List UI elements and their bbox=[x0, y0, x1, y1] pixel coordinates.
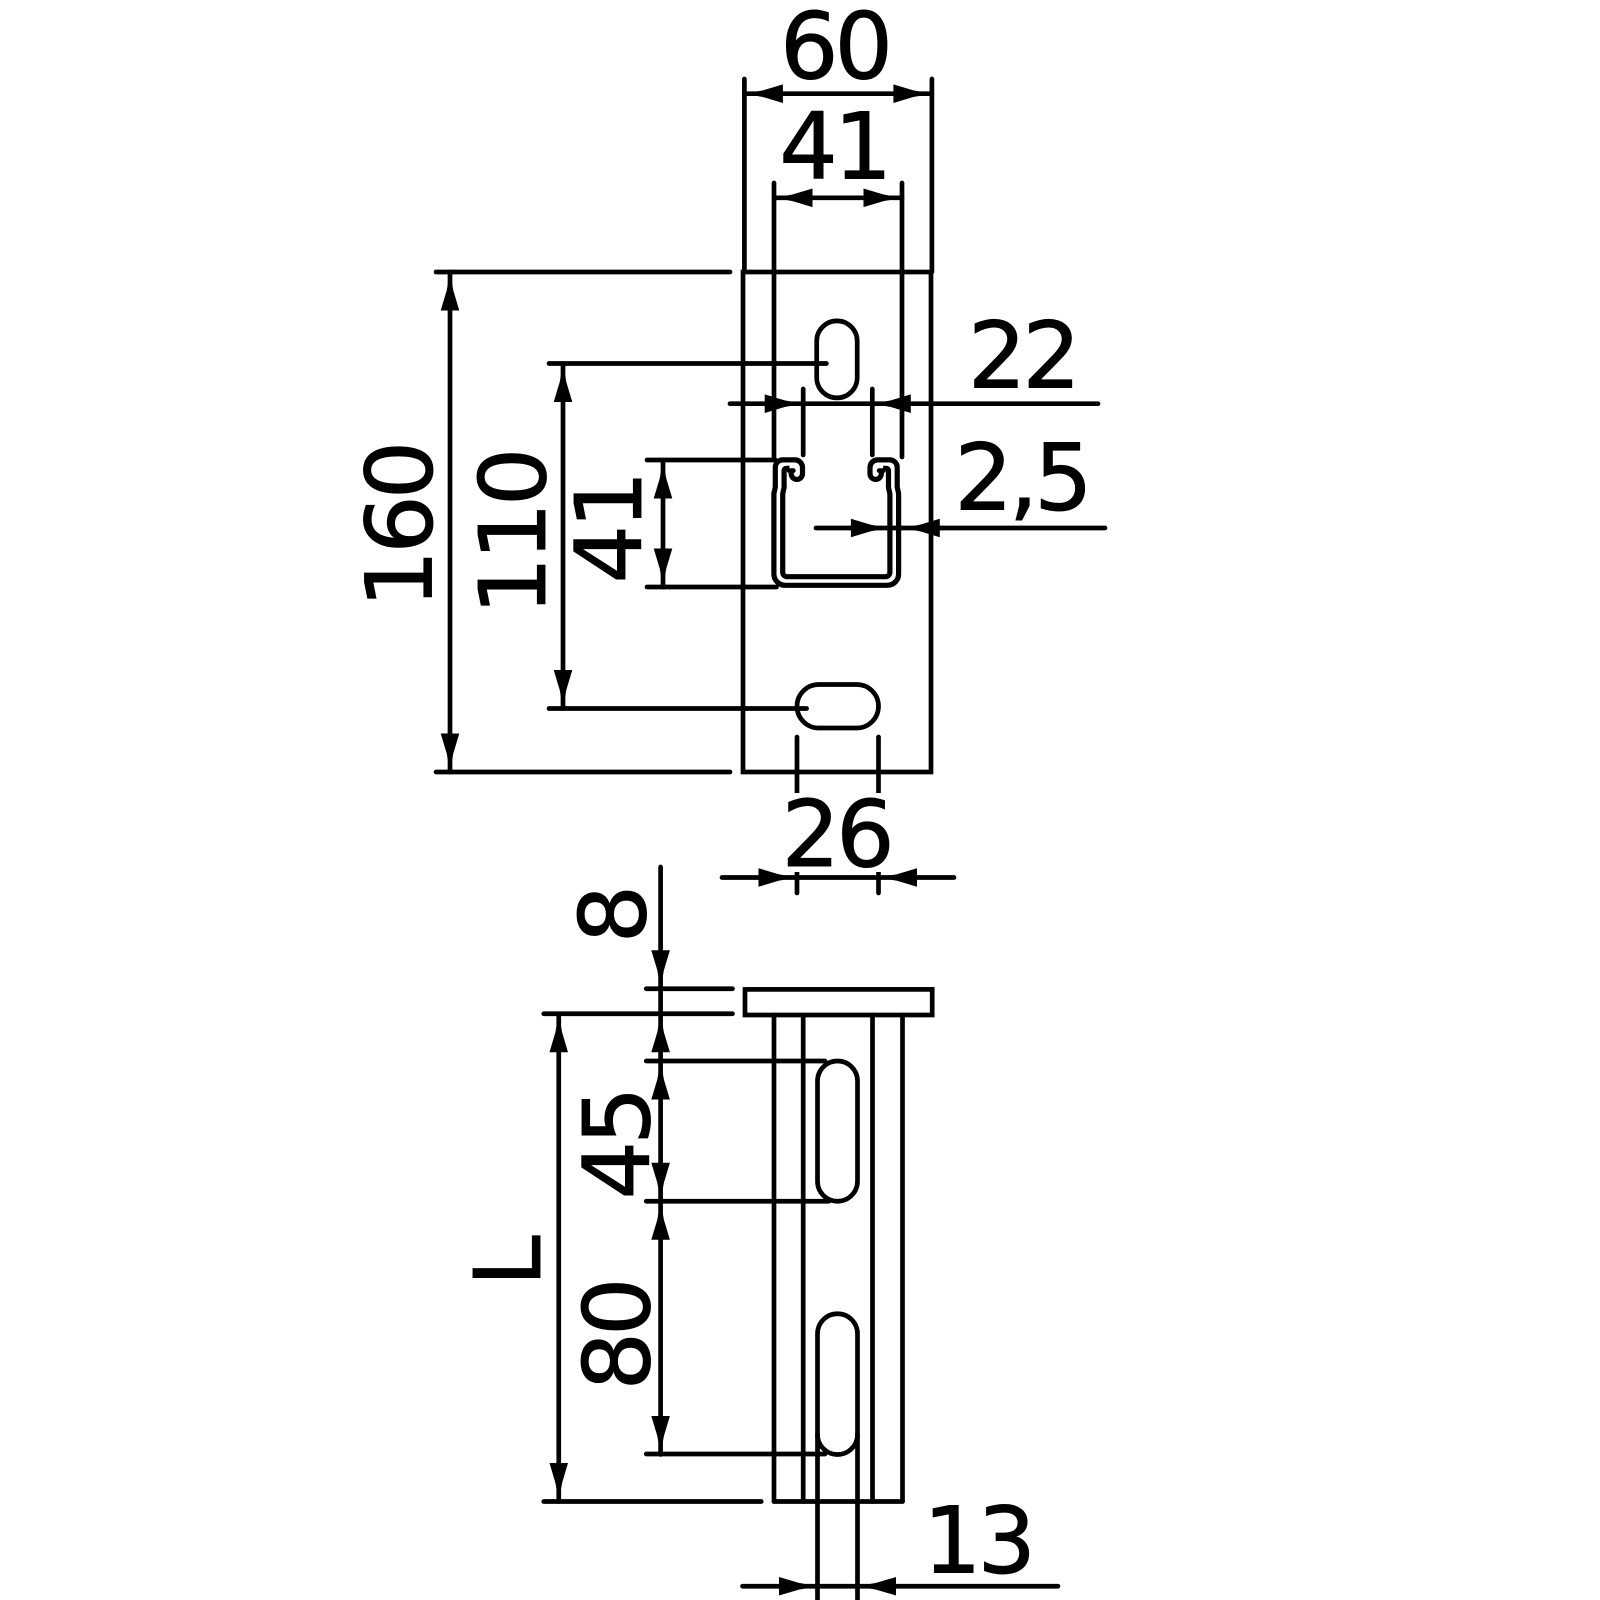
svg-text:L: L bbox=[455, 1236, 562, 1287]
svg-text:80: 80 bbox=[564, 1281, 671, 1390]
svg-text:41: 41 bbox=[556, 474, 663, 583]
svg-text:160: 160 bbox=[346, 445, 453, 609]
svg-text:110: 110 bbox=[460, 452, 567, 616]
svg-text:45: 45 bbox=[564, 1090, 671, 1199]
svg-text:22: 22 bbox=[968, 303, 1077, 410]
svg-text:26: 26 bbox=[782, 781, 891, 888]
svg-text:60: 60 bbox=[780, 0, 889, 100]
svg-text:8: 8 bbox=[560, 889, 667, 944]
svg-text:13: 13 bbox=[923, 1488, 1032, 1595]
svg-text:2,5: 2,5 bbox=[954, 425, 1088, 532]
svg-text:41: 41 bbox=[779, 94, 888, 201]
